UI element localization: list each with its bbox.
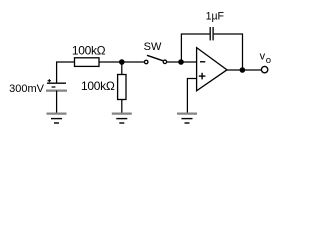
wire battery bottom to ground bbox=[56, 91, 58, 114]
wire R1 to switch bbox=[99, 61, 145, 63]
svg-text:300mV: 300mV bbox=[9, 83, 45, 95]
svg-text:100kΩ: 100kΩ bbox=[72, 44, 106, 58]
wire op-amp output to terminal bbox=[227, 69, 262, 71]
svg-text:SW: SW bbox=[144, 41, 162, 53]
wire node A down to R2 bbox=[121, 62, 123, 75]
svg-text:o: o bbox=[266, 55, 271, 66]
op-amp minus marker bbox=[200, 61, 205, 63]
wire capacitor to output node bbox=[214, 34, 243, 70]
op-amp U1 bbox=[197, 48, 227, 91]
terminal vo bbox=[261, 66, 267, 72]
voltage source V1 300mV bbox=[46, 79, 67, 91]
svg-text:v: v bbox=[260, 51, 266, 63]
node A junction dot bbox=[119, 59, 125, 65]
op-amp plus marker bbox=[199, 73, 206, 80]
wire non-inverting input to ground bbox=[187, 79, 196, 114]
node B junction dot (inverting input) bbox=[178, 59, 184, 65]
wire feedback up and over to capacitor bbox=[181, 34, 209, 62]
ground (op-amp + input) bbox=[177, 114, 197, 123]
wire switch to op-amp inverting input bbox=[167, 61, 197, 63]
resistor R2 100kΩ vertical bbox=[118, 75, 126, 100]
svg-text:100kΩ: 100kΩ bbox=[81, 79, 115, 93]
resistor R1 100kΩ horizontal bbox=[75, 58, 100, 67]
wire battery top to R1 bbox=[57, 62, 75, 83]
node C junction dot (output) bbox=[240, 67, 246, 73]
ground (R2) bbox=[112, 114, 132, 123]
svg-text:1µF: 1µF bbox=[206, 10, 225, 22]
ground (battery) bbox=[47, 114, 67, 123]
wire R2 to ground bbox=[121, 100, 123, 114]
switch SW bbox=[144, 55, 166, 63]
capacitor C1 1µF bbox=[210, 27, 213, 40]
